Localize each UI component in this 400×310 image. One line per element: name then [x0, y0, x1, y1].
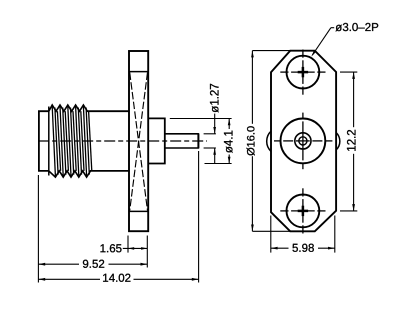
dimension 9.52 dimension line and arrows: [38, 263, 79, 265]
left view: center pin top edge: [165, 133, 199, 135]
dimension 1.65 dimension line and arrows: [123, 247, 148, 249]
dimension 14.02 extension line at pin tip: [198, 151, 200, 283]
svg-text:ø1.27: ø1.27: [209, 83, 221, 112]
dimension 14.02 dimension line and arrows: [38, 278, 100, 280]
right view: center conductor hole outer circle: [281, 118, 326, 163]
right view: flange plate outline with chamfered corners: [271, 51, 336, 232]
left view: flange X-cross diagonal 2: [130, 73, 148, 211]
right view: center dielectric circle: [295, 133, 311, 149]
left view: body cylinder top edge: [87, 110, 130, 112]
leader line to mounting hole: [312, 28, 331, 55]
svg-text:5.98: 5.98: [292, 243, 314, 255]
svg-text:1.65: 1.65: [100, 243, 122, 255]
right view: center crosshair vertical: [302, 113, 304, 170]
right view: center crosshair horizontal: [274, 140, 332, 142]
left view: center pin bottom edge: [165, 147, 199, 149]
dimension ø4.1 extension lines: [170, 118, 232, 120]
dimension 5.98 extension lines: [270, 216, 272, 253]
dimension 1.65 extension lines: [127, 236, 129, 253]
right view: center pin circle: [299, 137, 307, 145]
dimension Ø16.0 extension lines: [252, 50, 289, 52]
left view: boss shoulder outline: [148, 118, 165, 163]
left view: thread crest bottom zigzag: [49, 171, 91, 177]
dimension ø1.27 dimension line and arrows: [214, 114, 216, 134]
left view: thread crest top zigzag: [49, 105, 88, 111]
dimension 9.52 extension line left: [37, 175, 39, 283]
left view: flange inner bottom line: [129, 210, 148, 212]
left view: thread flank lines: [52, 106, 92, 176]
dimension 5.98 dimension line and arrows: [271, 247, 289, 249]
left view: flange inner top line: [129, 71, 148, 73]
svg-text:ø3.0–2P: ø3.0–2P: [335, 22, 379, 34]
svg-text:ø4.1: ø4.1: [223, 130, 235, 153]
left view: body cylinder bottom edge: [90, 170, 130, 172]
right view: mounting hole top crosshair: [280, 50, 325, 95]
svg-text:Ø16.0: Ø16.0: [246, 126, 258, 156]
left view: connector body rear cap: [39, 111, 49, 171]
right view: flange side notch left: [267, 131, 271, 151]
svg-text:12.2: 12.2: [347, 129, 359, 151]
dimension 12.2 dimension line and arrows: [353, 72, 355, 127]
dimension Ø16.0 dimension line and arrows: [251, 51, 253, 124]
left view: center pin end cap: [197, 133, 199, 148]
left view: thread start flank: [48, 107, 50, 176]
dimension 12.2 extension lines: [340, 71, 357, 73]
right view: mounting hole bottom crosshair: [280, 188, 325, 233]
svg-text:14.02: 14.02: [102, 273, 131, 285]
left view: flange X-cross diagonal 1: [130, 73, 148, 211]
right view: mounting hole top: [287, 56, 320, 89]
dimension ø1.27 extension lines: [204, 133, 216, 135]
right view: flange side notch right: [336, 133, 340, 150]
left view: axis centerline: [38, 140, 207, 142]
dimension ø4.1 dimension line and arrows: [228, 119, 230, 130]
svg-text:9.52: 9.52: [82, 259, 104, 271]
left view: flange side outline: [129, 51, 148, 231]
right view: mounting hole bottom: [287, 195, 320, 228]
